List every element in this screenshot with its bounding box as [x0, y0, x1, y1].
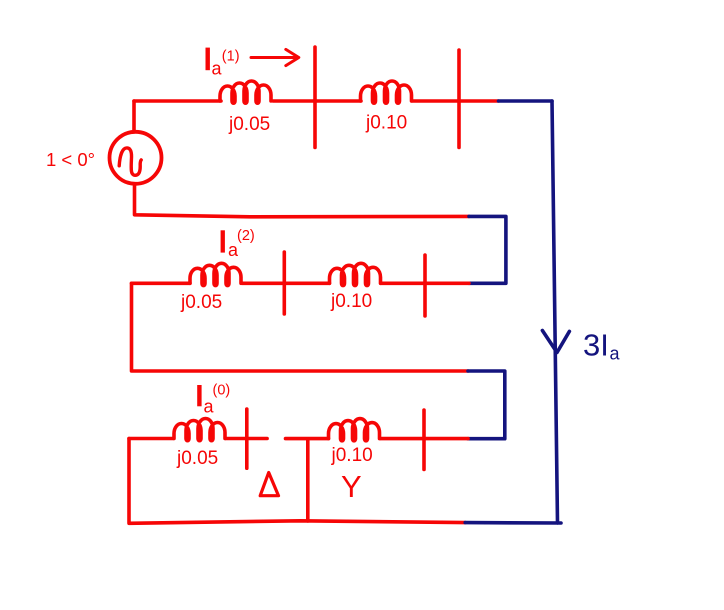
inductor j0.05 row2: [190, 263, 241, 285]
label 3Ia: [583, 328, 621, 364]
svg-text:j0.10: j0.10: [330, 291, 372, 312]
inductor j0.10 row1: [361, 81, 412, 103]
svg-text:j0.05: j0.05: [176, 448, 218, 469]
wire row3 delta-side stub: [129, 437, 267, 441]
svg-text:3I: 3I: [583, 328, 609, 363]
svg-text:a: a: [204, 397, 215, 417]
wire row3 right: [286, 437, 469, 441]
svg-text:j0.05: j0.05: [180, 292, 222, 313]
wire Y neutral vertical: [306, 439, 310, 521]
bus bar row1 left: [313, 47, 317, 148]
wire row1 top left: [134, 99, 221, 103]
wire row1 bottom blue connector: [469, 216, 506, 283]
wire row3 left vertical and bottom: [129, 439, 465, 524]
bus bar row1 right: [457, 50, 461, 148]
wire row1 mid: [273, 99, 361, 103]
bus bar row3 right: [422, 410, 426, 470]
wire row2 bottom blue connector: [468, 371, 505, 439]
wire source bottom lead: [135, 184, 470, 217]
bus bar row3 left: [245, 409, 249, 468]
svg-text:j0.05: j0.05: [228, 114, 270, 135]
wire right vertical 3Ia: [552, 101, 558, 523]
svg-text:j0.10: j0.10: [331, 445, 373, 466]
svg-text:(2): (2): [237, 228, 255, 244]
arrowhead 3Ia: [542, 331, 569, 353]
label delta winding: [260, 473, 278, 496]
wire row2 left vertical: [132, 283, 469, 371]
svg-text:Y: Y: [341, 469, 362, 504]
bus bar row2 left: [282, 252, 286, 314]
inductor j0.05 row1: [220, 81, 271, 103]
svg-text:(1): (1): [222, 49, 240, 65]
current label Ia1: [206, 48, 240, 79]
wire bottom blue segment: [465, 521, 561, 525]
current label Ia0: [197, 383, 230, 417]
inductor j0.10 row3: [329, 419, 380, 441]
wire row2 left: [132, 281, 470, 285]
voltage source V1: [110, 132, 162, 184]
inductor j0.05 row3: [174, 419, 225, 441]
svg-text:1 < 0°: 1 < 0°: [46, 149, 95, 170]
bus bar row2 right: [423, 255, 427, 316]
current label Ia2: [221, 228, 255, 260]
arrow Ia1 direction: [251, 49, 299, 65]
wire source top lead: [132, 101, 136, 132]
svg-text:j0.10: j0.10: [365, 113, 407, 134]
inductor j0.10 row2: [330, 263, 381, 285]
svg-text:a: a: [610, 344, 621, 364]
svg-text:(0): (0): [213, 383, 231, 399]
wire row1 right: [412, 99, 499, 103]
wire row1 top blue segment: [499, 99, 553, 103]
